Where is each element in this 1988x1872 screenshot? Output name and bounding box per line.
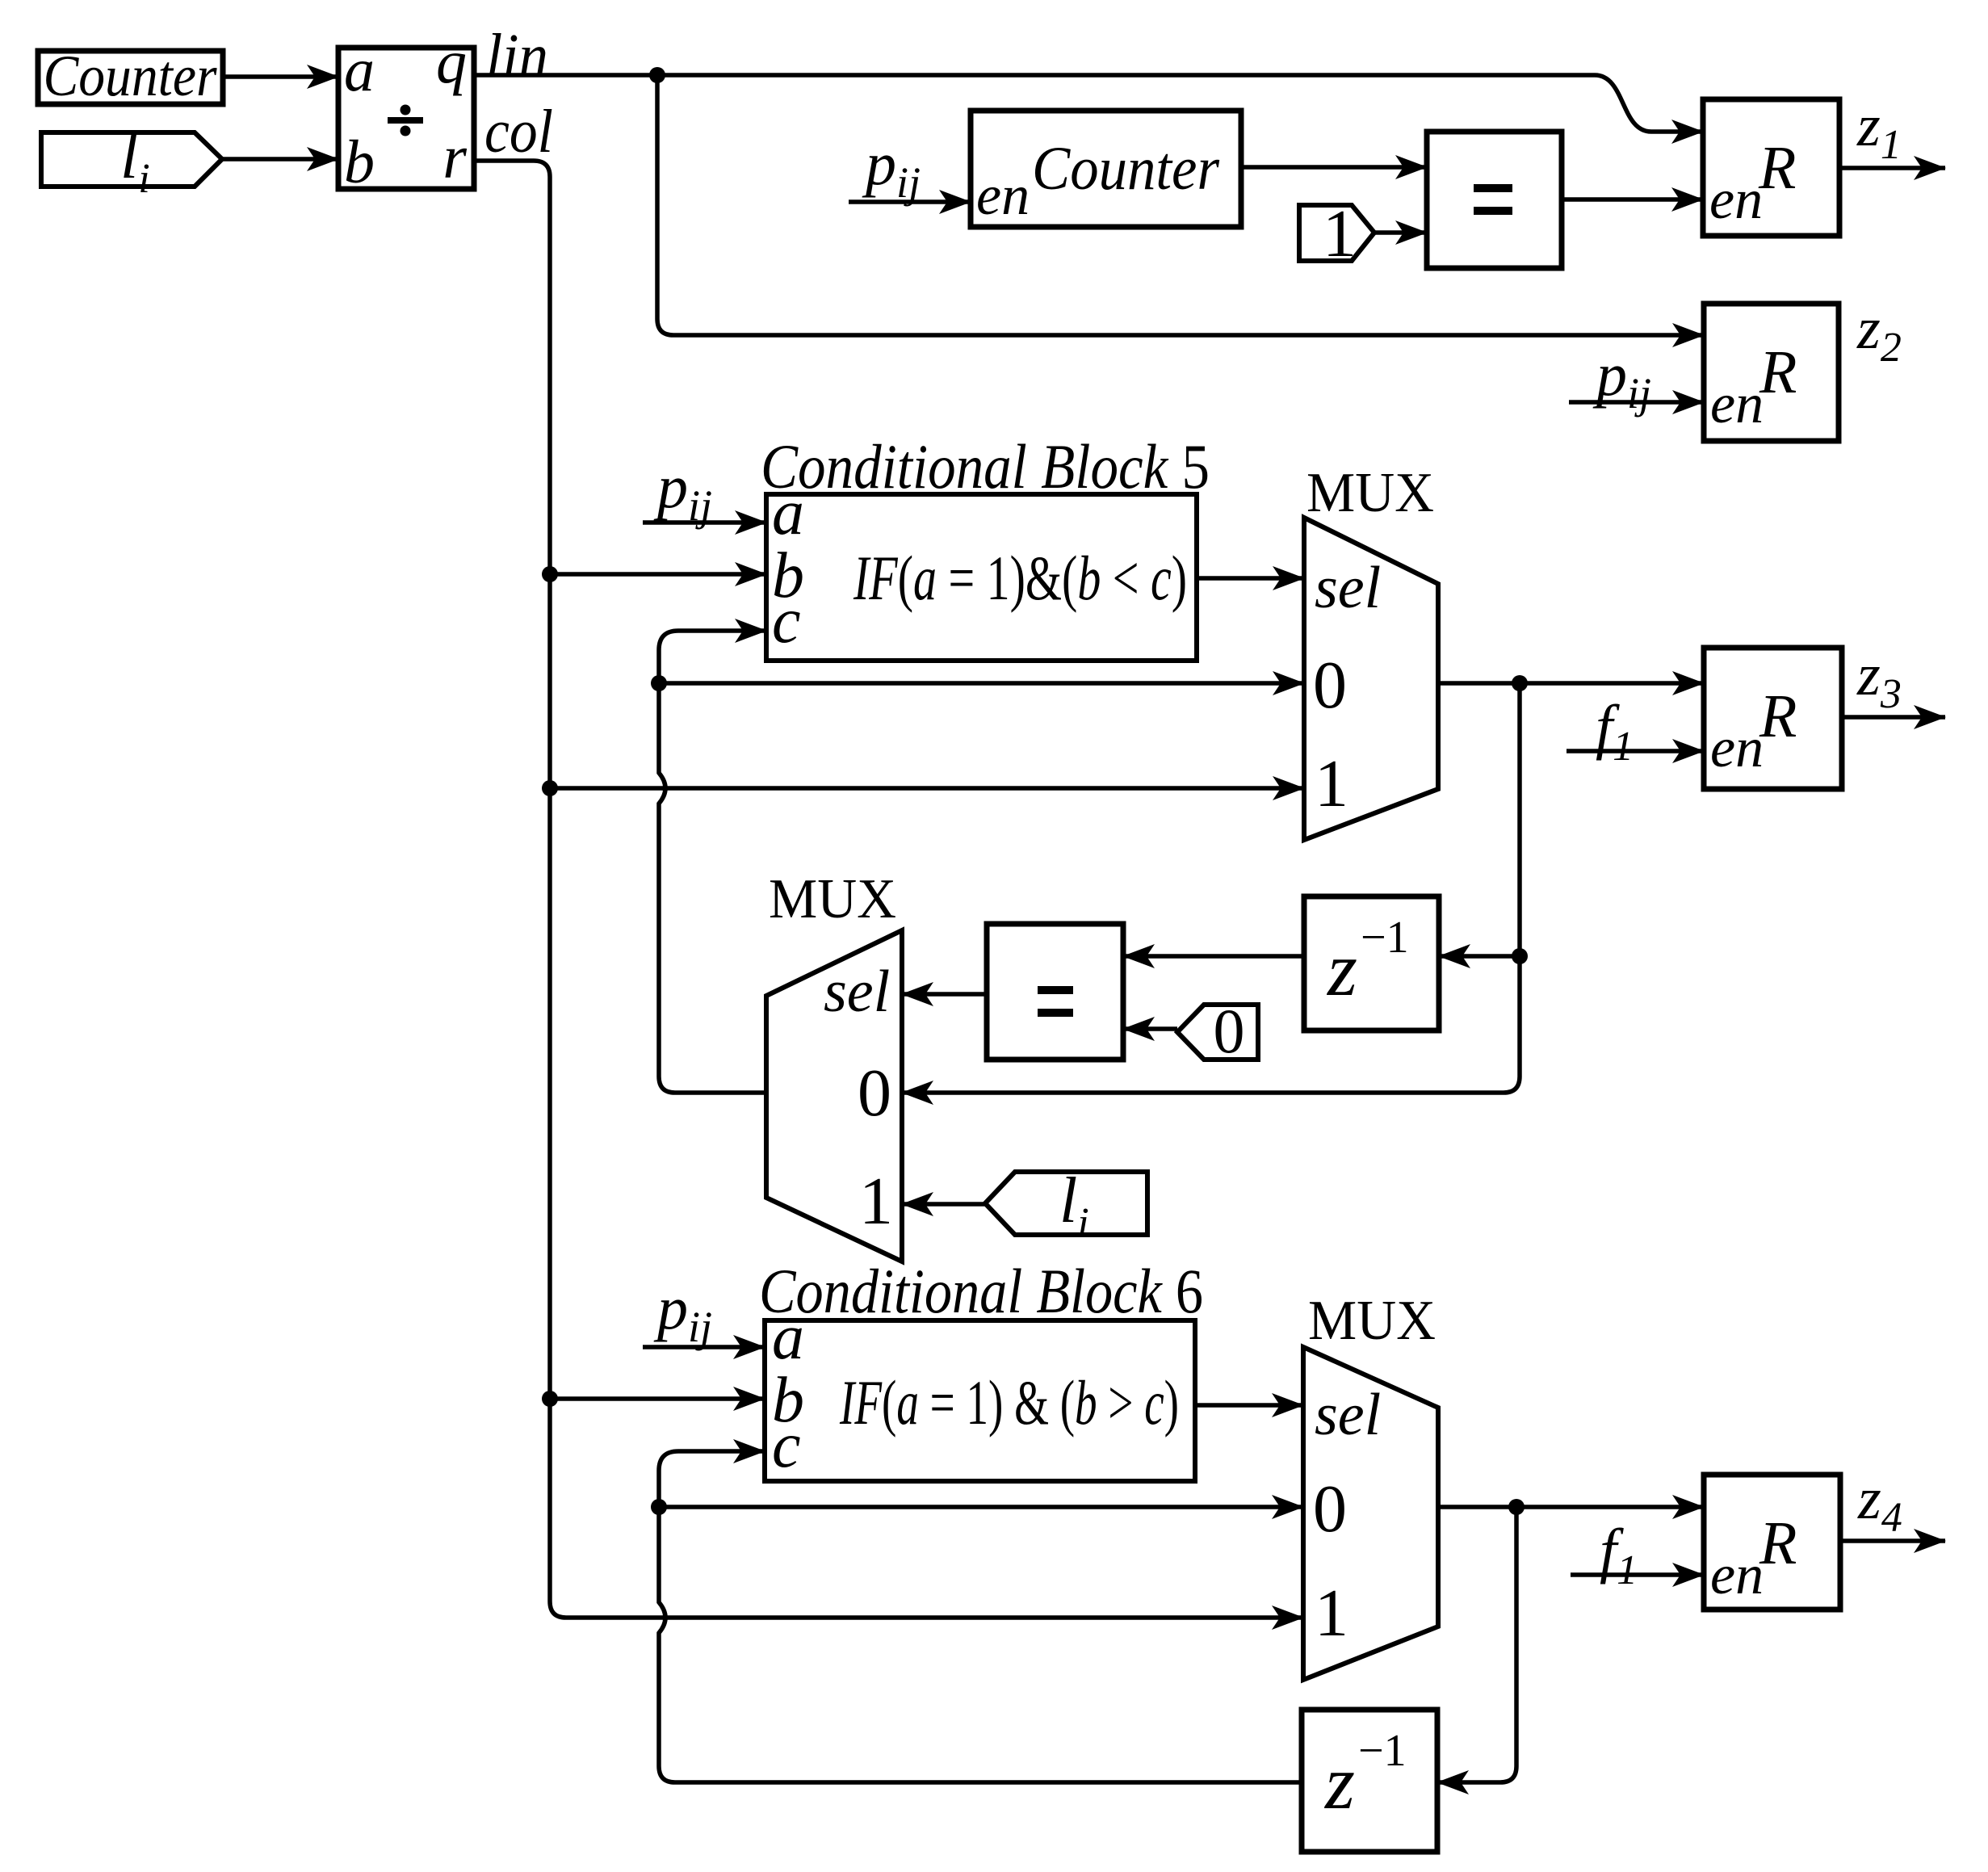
svg-text:MUX: MUX (769, 868, 896, 930)
svg-text:sel: sel (1315, 1382, 1381, 1448)
svg-text:pij: pij (862, 130, 921, 207)
svg-text:z3: z3 (1856, 642, 1902, 717)
svg-text:a: a (344, 36, 375, 104)
svg-text:Counter: Counter (1032, 135, 1219, 203)
svg-text:en: en (1709, 169, 1763, 231)
svg-text:en: en (976, 165, 1030, 227)
svg-text:z4: z4 (1857, 1466, 1902, 1541)
svg-text:en: en (1710, 373, 1764, 435)
svg-text:sel: sel (1315, 555, 1381, 621)
svg-text:pij: pij (653, 453, 712, 530)
svg-text:sel: sel (824, 959, 890, 1025)
svg-text:b: b (344, 128, 375, 196)
svg-text:IF(a = 1)&(b < c): IF(a = 1)&(b < c) (853, 543, 1187, 613)
svg-text:q: q (436, 28, 467, 96)
svg-text:0: 0 (858, 1056, 891, 1131)
svg-text:MUX: MUX (1308, 1290, 1436, 1352)
svg-text:1: 1 (1315, 746, 1348, 821)
svg-text:z1: z1 (1856, 93, 1902, 168)
svg-text:c: c (772, 586, 801, 657)
svg-text:en: en (1710, 717, 1764, 779)
svg-text:a: a (772, 477, 804, 548)
svg-text:a: a (772, 1302, 804, 1373)
svg-text:R: R (1758, 134, 1796, 202)
svg-text:z−1: z−1 (1323, 1726, 1407, 1825)
svg-text:pij: pij (1592, 341, 1651, 418)
svg-text:r: r (442, 124, 467, 191)
svg-text:0: 0 (1313, 648, 1347, 723)
svg-text:1: 1 (1315, 1576, 1348, 1651)
svg-text:Counter: Counter (44, 44, 218, 108)
svg-text:z−1: z−1 (1326, 913, 1409, 1012)
svg-text:c: c (772, 1410, 801, 1481)
svg-text:f1: f1 (1596, 693, 1634, 770)
svg-text:0: 0 (1313, 1471, 1347, 1547)
svg-text:f1: f1 (1600, 1517, 1638, 1593)
svg-text:IF(a = 1) & (b > c): IF(a = 1) & (b > c) (839, 1367, 1179, 1438)
svg-text:en: en (1710, 1544, 1764, 1606)
svg-text:0: 0 (1214, 996, 1245, 1066)
svg-text:Conditional Block 6: Conditional Block 6 (759, 1256, 1203, 1326)
svg-text:R: R (1759, 338, 1797, 406)
svg-text:1: 1 (859, 1164, 893, 1239)
svg-text:col: col (484, 98, 553, 166)
svg-text:MUX: MUX (1306, 462, 1434, 524)
svg-text:Conditional Block 5: Conditional Block 5 (761, 431, 1210, 502)
svg-text:lin: lin (486, 22, 548, 90)
svg-text:pij: pij (653, 1274, 712, 1351)
svg-text:1: 1 (1323, 196, 1357, 271)
svg-text:z2: z2 (1856, 296, 1902, 371)
svg-text:R: R (1759, 1509, 1797, 1577)
svg-text:li: li (1059, 1165, 1089, 1246)
svg-text:R: R (1759, 682, 1797, 750)
